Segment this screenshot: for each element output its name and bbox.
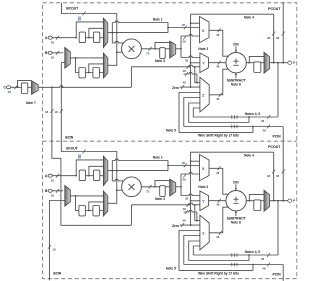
wire P out slice 2 — [270, 200, 288, 202]
B reg row drop slice 1 — [76, 58, 104, 73]
svg-text:Wire Shift Right by 17 bits: Wire Shift Right by 17 bits — [198, 134, 239, 138]
P feedback up slice 1 — [273, 14, 275, 63]
rail P slice 1 — [193, 116, 278, 118]
svg-text:48: 48 — [216, 64, 220, 68]
mux Y slice 2 — [200, 191, 209, 211]
register B1 slice 2 — [93, 206, 100, 216]
P feedback top wire slice 1 — [191, 13, 274, 15]
concat bar A:B slice 2 — [167, 161, 169, 171]
M bypass slice 1 — [155, 42, 170, 48]
mux M slice 2 — [170, 179, 176, 196]
multiplier slice 2 — [122, 177, 142, 197]
wire X out to adder slice 2 — [209, 168, 229, 194]
register A0 slice 1 — [79, 32, 85, 43]
wire A:B 36 to X slice 1 — [168, 27, 200, 29]
wire P to X slice 2 — [190, 160, 192, 162]
svg-text:Note 2: Note 2 — [198, 185, 208, 189]
register B0 slice 1 — [79, 68, 86, 78]
rail P shifted slice 2 — [248, 255, 250, 261]
register A1 slice 2 — [94, 170, 100, 181]
wire PP to X slice 1 — [181, 34, 200, 36]
svg-text:48: 48 — [183, 218, 187, 222]
svg-text:48: 48 — [8, 90, 12, 94]
wire Z out to adder slice 2 — [209, 207, 228, 233]
mux B BCIN slice 1 — [65, 48, 71, 69]
B inner bypass slice 2 — [89, 202, 104, 211]
svg-text:48: 48 — [216, 202, 220, 206]
A input wire slice 1 — [52, 37, 76, 39]
svg-text:36: 36 — [185, 196, 189, 200]
PCOUT exit slice 1 — [282, 2, 284, 63]
output pad P slice 2 — [288, 199, 292, 202]
svg-text:Notes 4, 5: Notes 4, 5 — [245, 112, 260, 116]
svg-text:PCIN: PCIN — [272, 135, 281, 139]
svg-text:X: X — [202, 28, 205, 33]
wire M out bar slice 2 — [176, 186, 181, 188]
register P slice 1 — [254, 62, 261, 73]
svg-text:18: 18 — [54, 110, 58, 114]
svg-text:18: 18 — [52, 248, 56, 252]
rail PCIN shifted slice 1 — [252, 127, 254, 133]
P down to rail slice 2 — [277, 201, 279, 255]
mux A slice 2 — [103, 156, 107, 185]
register B0 slice 2 — [79, 206, 86, 216]
svg-text:Zero: Zero — [172, 86, 179, 90]
svg-text:36: 36 — [182, 23, 186, 27]
svg-text:48: 48 — [276, 174, 280, 178]
register B1 slice 1 — [93, 68, 100, 78]
svg-text:Note 1: Note 1 — [153, 18, 163, 22]
BCIN entry slice 2 — [49, 201, 64, 281]
register A0 slice 2 — [79, 170, 85, 181]
svg-text:72: 72 — [146, 190, 150, 194]
stub 48 slice 1 — [184, 72, 197, 74]
PCOUT riser slice 1 — [282, 32, 285, 36]
svg-text:48: 48 — [183, 69, 187, 73]
concat bar A:B slice 1 — [167, 23, 169, 33]
rail risers slice 2 — [193, 246, 200, 255]
mux M slice 1 — [170, 41, 176, 58]
svg-text:Note 5: Note 5 — [166, 129, 176, 133]
mux P slice 2 — [264, 190, 270, 211]
svg-text:PCOUT: PCOUT — [268, 145, 281, 149]
wire A out slice 1 — [108, 32, 168, 34]
register A1 slice 1 — [94, 32, 100, 43]
wire M reg to mux slice 2 — [165, 186, 170, 188]
svg-text:BCIN: BCIN — [65, 136, 73, 140]
adder subtracter slice 2 — [226, 191, 246, 211]
mux X slice 1 — [200, 17, 210, 43]
P bypass slice 2 — [249, 194, 264, 200]
wire C reg to mux — [28, 86, 32, 88]
B input wire slice 2 — [52, 190, 63, 192]
wire B to multiplier slice 1 — [116, 51, 118, 53]
rail PCIN shifted slice 2 — [252, 265, 254, 271]
P bypass slice 1 — [249, 56, 264, 62]
register C — [21, 83, 27, 94]
C bypass — [18, 81, 32, 88]
wire A regs slice 2 — [86, 175, 94, 177]
svg-text:36: 36 — [182, 40, 186, 44]
wire P to X slice 1 — [190, 22, 192, 24]
svg-text:18: 18 — [78, 16, 82, 20]
B reg row drop slice 2 — [76, 196, 104, 211]
wire B out to concat column slice 2 — [63, 152, 117, 204]
wire C to Z slice 2 — [194, 205, 196, 221]
wire B straight slice 2 — [70, 195, 103, 197]
wire P reg to mux slice 1 — [261, 62, 264, 64]
wire A out slice 2 — [108, 170, 168, 172]
multiplier slice 1 — [122, 39, 142, 59]
mux Y slice 1 — [200, 53, 209, 73]
mux Z slice 1 — [200, 77, 209, 112]
mux A slice 1 — [103, 18, 107, 47]
SUBTRACT input slice 1 — [235, 74, 237, 79]
svg-text:48: 48 — [261, 119, 265, 123]
adder subtracter slice 1 — [226, 53, 246, 73]
svg-text:48: 48 — [216, 97, 220, 101]
svg-text:Note 3: Note 3 — [155, 197, 165, 201]
svg-text:BCOUT: BCOUT — [66, 6, 79, 10]
SUBTRACT input slice 2 — [235, 212, 237, 217]
svg-text:Wire Shift Right by 17 bits: Wire Shift Right by 17 bits — [198, 272, 239, 276]
wire PP to Y slice 2 — [181, 194, 200, 196]
B inner bypass slice 1 — [89, 64, 104, 73]
mux C — [32, 81, 39, 95]
rail PCIN slice 2 — [184, 264, 283, 266]
BCOUT exit slice 1 — [62, 3, 64, 14]
svg-text:48: 48 — [267, 36, 271, 40]
A input wire slice 2 — [52, 175, 76, 177]
outer dashed border — [43, 3, 297, 279]
svg-text:48: 48 — [276, 36, 280, 40]
wire adder out slice 2 — [246, 200, 254, 202]
BCOUT slash 18 slice 1 — [82, 12, 85, 16]
svg-text:48: 48 — [216, 33, 220, 37]
register M slice 1 — [160, 48, 166, 59]
C distribution wire slice 2 — [62, 224, 132, 226]
mux B BCIN slice 2 — [65, 186, 71, 207]
svg-text:18: 18 — [51, 56, 55, 60]
B input wire slice 1 — [52, 52, 63, 54]
wire PP to Y slice 1 — [181, 56, 200, 58]
svg-text:48: 48 — [262, 267, 266, 271]
rail risers slice 1 — [193, 108, 200, 117]
svg-text:BCIN: BCIN — [53, 271, 61, 275]
mux P slice 1 — [264, 52, 270, 73]
wire P reg to mux slice 2 — [261, 200, 264, 202]
P feedback column slice 2 — [190, 152, 192, 225]
svg-text:48: 48 — [262, 129, 266, 133]
svg-text:48: 48 — [267, 174, 271, 178]
wire B to multiplier slice 2 — [116, 189, 118, 191]
svg-text:Note 4: Note 4 — [244, 153, 254, 157]
BCOUT slash 18 slice 2 — [82, 150, 85, 154]
svg-text:48: 48 — [216, 235, 220, 239]
A bypass wires slice 1 — [76, 22, 103, 38]
wire B out to concat column slice 1 — [63, 14, 117, 66]
svg-text:X: X — [202, 166, 205, 171]
svg-text:48: 48 — [216, 171, 220, 175]
svg-text:PCIN: PCIN — [272, 273, 281, 277]
wire Y out to adder slice 1 — [209, 62, 227, 64]
PCOUT riser slice 2 — [282, 170, 285, 174]
svg-text:Note 1: Note 1 — [153, 156, 163, 160]
P feedback column slice 1 — [190, 14, 192, 87]
svg-text:Note 8: Note 8 — [231, 220, 241, 224]
wire M out bar slice 1 — [176, 48, 181, 50]
mux B out slice 2 — [103, 191, 107, 216]
wire A upper branch slice 2 — [111, 161, 113, 171]
stub 48 slice 2 — [184, 210, 197, 212]
wire PP to X slice 2 — [181, 172, 200, 174]
wire zero column to Y slice 1 — [190, 62, 192, 64]
svg-text:36: 36 — [182, 161, 186, 165]
slice divider dashed — [43, 140, 297, 142]
svg-text:36: 36 — [185, 58, 189, 62]
P down to rail slice 1 — [277, 63, 279, 117]
svg-text:Note 7: Note 7 — [26, 101, 36, 105]
svg-text:Notes 4, 5: Notes 4, 5 — [245, 250, 260, 254]
M bypass slice 2 — [155, 180, 170, 186]
wire Z out to adder slice 1 — [209, 69, 228, 95]
wire M reg to mux slice 1 — [165, 48, 170, 50]
svg-text:CIN: CIN — [233, 180, 239, 184]
wire A upper branch slice 1 — [111, 23, 113, 33]
PCIN entry slice 2 — [282, 265, 284, 281]
svg-text:18: 18 — [51, 179, 55, 183]
PCIN cascade from slice 2 — [282, 127, 284, 201]
mux B out slice 1 — [103, 53, 107, 78]
svg-text:36: 36 — [182, 178, 186, 182]
wire Y out to adder slice 2 — [209, 200, 227, 202]
rail P shifted slice 1 — [248, 117, 250, 123]
svg-text:72: 72 — [146, 52, 150, 56]
BCIN cascade column — [40, 86, 63, 88]
C down wire to slice 2 — [51, 86, 53, 88]
svg-text:48: 48 — [261, 257, 265, 261]
svg-text:48: 48 — [45, 110, 49, 114]
wire zero column to Y slice 2 — [190, 200, 192, 202]
svg-text:Note 2: Note 2 — [198, 47, 208, 51]
mux X slice 2 — [200, 155, 210, 181]
svg-text:BCOUT: BCOUT — [66, 147, 77, 151]
rail PCIN slice 1 — [184, 126, 283, 128]
svg-text:18: 18 — [78, 154, 82, 158]
svg-text:Zero: Zero — [172, 224, 179, 228]
A bypass wires slice 2 — [76, 160, 103, 176]
wire multiplier out 72 slice 1 — [141, 48, 159, 50]
P feedback top wire slice 2 — [191, 151, 274, 153]
wire B straight slice 1 — [70, 57, 103, 59]
C input wire — [11, 86, 22, 88]
wire multiplier out 72 slice 2 — [141, 186, 159, 188]
wire A regs slice 1 — [86, 37, 94, 39]
svg-text:Note 8: Note 8 — [231, 82, 241, 86]
svg-text:PCOUT: PCOUT — [268, 7, 281, 11]
P feedback up slice 2 — [273, 152, 275, 201]
svg-text:Note 5: Note 5 — [166, 267, 176, 271]
C distribution wire slice 1 — [62, 86, 132, 88]
svg-text:18: 18 — [51, 194, 55, 198]
register M slice 2 — [160, 186, 166, 197]
wire A:B 36 to X slice 2 — [168, 165, 200, 167]
svg-text:Note 3: Note 3 — [155, 59, 165, 63]
wire A to multiplier slice 2 — [111, 171, 113, 181]
shift ticks slice 2 — [231, 253, 233, 257]
wire X out to adder slice 1 — [209, 30, 229, 56]
svg-text:CIN: CIN — [233, 42, 239, 46]
svg-text:48: 48 — [183, 80, 187, 84]
wire A to multiplier slice 1 — [111, 33, 113, 43]
register P slice 2 — [254, 200, 261, 211]
mux Z slice 2 — [200, 215, 209, 250]
svg-text:Y: Y — [202, 199, 205, 204]
svg-text:Y: Y — [202, 61, 205, 66]
wire adder out slice 1 — [246, 62, 254, 64]
output pad P slice 1 — [288, 61, 292, 64]
svg-text:18: 18 — [51, 41, 55, 45]
wire C mux out — [38, 86, 39, 88]
rail P slice 2 — [193, 254, 278, 256]
shift ticks slice 1 — [231, 115, 233, 119]
wire P out slice 1 — [270, 62, 288, 64]
svg-text:Note 4: Note 4 — [244, 15, 254, 19]
svg-text:48: 48 — [183, 207, 187, 211]
wire C to Z slice 1 — [194, 67, 196, 83]
